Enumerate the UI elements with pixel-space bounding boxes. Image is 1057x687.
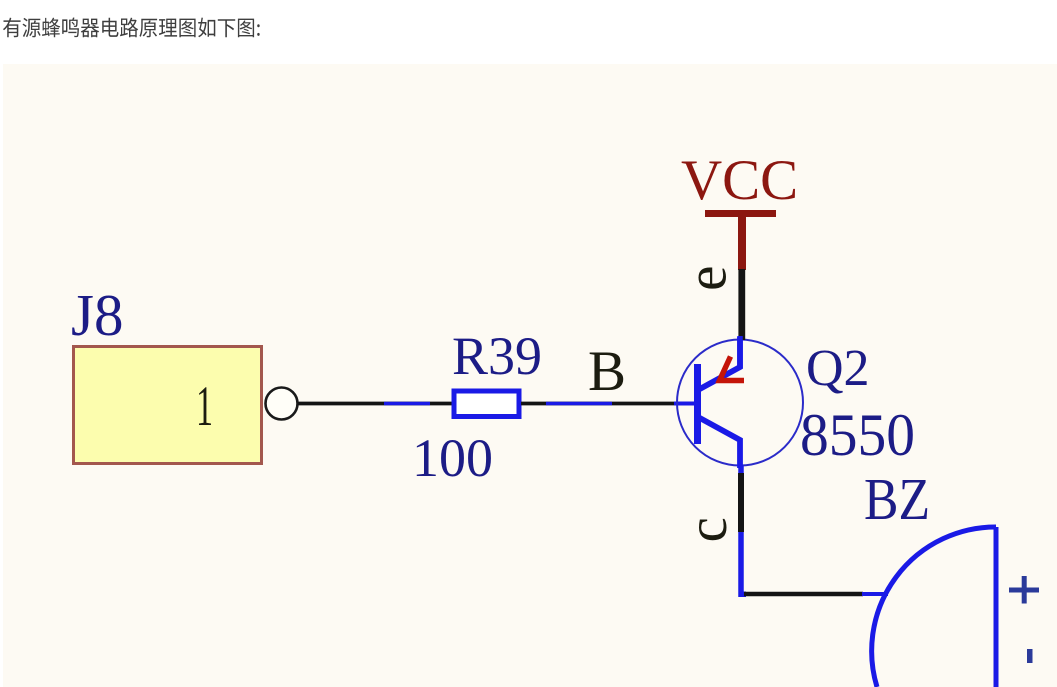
svg-text:1: 1 bbox=[196, 375, 213, 438]
svg-text:R39: R39 bbox=[452, 326, 542, 386]
transistor Q2 base bar bbox=[694, 364, 701, 444]
resistor R39 body bbox=[454, 391, 519, 417]
transistor Q2 circle bbox=[677, 340, 803, 466]
wire: pin circle to resistor R39 bbox=[298, 402, 453, 406]
collector lead blue below circle bbox=[738, 466, 744, 473]
transistor emitter lead blue top bbox=[737, 336, 743, 368]
svg-text:BZ: BZ bbox=[864, 466, 930, 532]
transistor Q2 base lead (blue) bbox=[674, 402, 697, 406]
wire: resistor R39 to transistor base bbox=[521, 402, 676, 406]
buzzer plus label bbox=[1009, 588, 1039, 593]
wire blue lead segment right of R39 bbox=[546, 402, 612, 405]
svg-text:B: B bbox=[588, 340, 626, 403]
buzzer minus label (rotated) bbox=[1027, 649, 1033, 663]
VCC stem (dark red) bbox=[738, 215, 746, 270]
wire: VCC to emitter (black) bbox=[738, 269, 745, 340]
title text 有源蜂鸣器电路原理图如下图: bbox=[3, 18, 260, 38]
VCC power bar bbox=[705, 210, 776, 217]
wire: horizontal to buzzer (black) bbox=[744, 592, 863, 597]
svg-text:J8: J8 bbox=[71, 282, 123, 348]
wire: collector down (black) bbox=[738, 473, 744, 532]
buzzer flat side bbox=[994, 527, 999, 687]
buzzer left pin stub (blue) bbox=[862, 592, 888, 596]
buzzer body (half disc) bbox=[872, 527, 996, 687]
transistor Q2 emitter path bbox=[698, 337, 740, 390]
svg-text:e: e bbox=[676, 266, 739, 291]
svg-text:VCC: VCC bbox=[681, 149, 798, 212]
connector J8 body bbox=[74, 347, 262, 464]
svg-text:100: 100 bbox=[412, 428, 493, 488]
transistor Q2 emitter arrow (red) bbox=[720, 357, 745, 381]
transistor Q2 collector path bbox=[698, 417, 740, 468]
wire: collector blue segment bbox=[741, 532, 746, 594]
connector J8 pin circle bbox=[266, 388, 298, 420]
svg-text:8550: 8550 bbox=[800, 402, 915, 468]
svg-text:c: c bbox=[676, 517, 739, 542]
wire blue lead segment left of R39 bbox=[384, 402, 430, 405]
svg-text:Q2: Q2 bbox=[806, 340, 870, 397]
